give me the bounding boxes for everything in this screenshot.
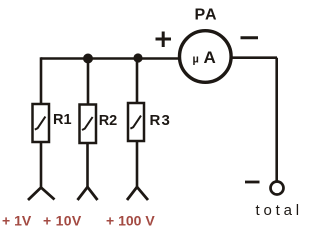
probe terminal 3 <box>127 187 148 200</box>
svg-text:R2: R2 <box>99 113 118 129</box>
probe terminal 1 <box>28 188 55 201</box>
ammeter U1 circle <box>180 31 232 83</box>
svg-text:+ 1V: + 1V <box>2 212 32 228</box>
probe terminal 2 <box>78 187 98 200</box>
wire R2 bottom lead <box>86 143 89 187</box>
node junction at R3 branch <box>133 53 142 62</box>
svg-text:+ 10V: + 10V <box>43 212 82 228</box>
svg-text:A: A <box>204 48 216 67</box>
svg-text:total: total <box>256 202 301 219</box>
wire right vertical down <box>275 58 278 182</box>
resistor R1 <box>33 104 50 142</box>
svg-text:PA: PA <box>195 7 218 24</box>
svg-text:µ: µ <box>193 54 199 66</box>
wire top bus horizontal <box>41 57 179 60</box>
svg-text:+ 100 V: + 100 V <box>106 212 155 228</box>
wire branch down to R3 <box>136 58 139 104</box>
minus sign at total terminal <box>245 181 260 184</box>
svg-text:R1: R1 <box>53 112 72 128</box>
resistor R2 <box>80 105 97 144</box>
minus sign at meter output <box>241 36 259 39</box>
node junction at R2 branch <box>83 54 93 64</box>
wire branch down to R2 <box>87 59 90 106</box>
wire R3 bottom lead <box>136 141 139 187</box>
terminal total (open circle) <box>271 182 284 195</box>
svg-text:R3: R3 <box>150 112 172 129</box>
wire left branch down to R1 <box>40 57 43 105</box>
wire meter to right corner <box>231 56 278 59</box>
wire R1 bottom lead <box>40 142 43 188</box>
resistor R3 <box>128 103 144 141</box>
plus sign at meter input <box>156 32 172 48</box>
